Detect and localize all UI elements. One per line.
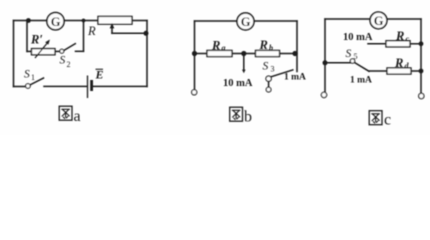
svg-text:R: R bbox=[211, 38, 220, 52]
svg-text:1: 1 bbox=[31, 73, 35, 82]
svg-text:S: S bbox=[60, 55, 66, 67]
svg-text:1 mA: 1 mA bbox=[350, 76, 372, 86]
svg-text:c: c bbox=[384, 112, 391, 129]
svg-text:a: a bbox=[222, 44, 226, 53]
svg-text:1 mA: 1 mA bbox=[284, 72, 306, 82]
svg-text:3: 3 bbox=[271, 65, 275, 74]
svg-text:G: G bbox=[51, 15, 61, 29]
svg-text:10 mA: 10 mA bbox=[343, 32, 373, 43]
svg-text:S: S bbox=[263, 60, 269, 72]
svg-text:R: R bbox=[87, 24, 96, 38]
svg-text:G: G bbox=[241, 15, 251, 29]
svg-text:a: a bbox=[74, 108, 81, 125]
svg-text:b: b bbox=[269, 43, 273, 52]
svg-text:R′: R′ bbox=[30, 33, 43, 47]
svg-text:R: R bbox=[395, 29, 404, 43]
svg-text:10 mA: 10 mA bbox=[223, 78, 253, 89]
svg-text:S: S bbox=[24, 69, 30, 81]
svg-text:2: 2 bbox=[67, 60, 71, 69]
svg-text:R: R bbox=[259, 38, 268, 52]
svg-text:E: E bbox=[95, 68, 104, 82]
svg-text:5: 5 bbox=[354, 52, 358, 61]
svg-text:S: S bbox=[346, 48, 352, 60]
svg-text:R: R bbox=[394, 56, 403, 70]
svg-text:c: c bbox=[406, 35, 410, 44]
svg-text:b: b bbox=[244, 109, 252, 126]
svg-text:G: G bbox=[374, 14, 384, 28]
